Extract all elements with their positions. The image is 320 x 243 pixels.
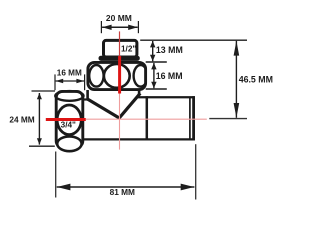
- dim 16MM left right arrowhead: [76, 79, 84, 83]
- svg-text:13 MM: 13 MM: [156, 45, 183, 55]
- nut top facet ellipse: [55, 91, 83, 101]
- dim 24MM bottom reference line: [29, 145, 55, 147]
- svg-text:20 MM: 20 MM: [106, 13, 132, 23]
- dim 16MM left left arrowhead: [56, 79, 64, 83]
- vertical centerline upper thin: [119, 31, 121, 57]
- dim 20MM right arrowhead: [128, 25, 138, 30]
- dim 20MM left arrowhead: [102, 25, 112, 30]
- hex bottom reference line: [146, 88, 167, 90]
- dim 16MM right line: [153, 63, 155, 88]
- dim 16MM right top arrowhead: [151, 63, 156, 70]
- dim 24MM bottom arrowhead: [37, 138, 42, 144]
- dim 81MM line: [57, 186, 195, 188]
- dim 46.5MM bottom arrowhead: [234, 103, 240, 118]
- hex left facet ellipse: [89, 65, 103, 87]
- dim 81MM right extension line: [195, 144, 197, 199]
- body right chamfer diagonal: [119, 93, 141, 118]
- body right wall: [138, 90, 141, 95]
- svg-text:16 MM: 16 MM: [57, 69, 82, 78]
- dim 81MM right arrowhead: [181, 184, 195, 191]
- dim 13MM line: [152, 41, 154, 61]
- dim 13MM bottom arrowhead: [150, 55, 155, 62]
- pipe/body divider: [146, 96, 149, 140]
- dim 46.5MM line: [235, 41, 237, 118]
- body left top short edge: [83, 98, 89, 100]
- hex center facet ellipse: [104, 64, 130, 88]
- vertical centerline lower pink: [119, 94, 121, 150]
- dim 20MM line: [102, 26, 138, 28]
- cap outline: [104, 40, 137, 57]
- hex top reference line: [146, 61, 167, 63]
- dim 16MM left left tick: [54, 74, 56, 90]
- dim 81MM left arrowhead: [57, 184, 71, 191]
- hex outline: [88, 62, 146, 89]
- valve body bottom edge: [83, 138, 195, 140]
- svg-text:16 MM: 16 MM: [156, 71, 183, 81]
- nut bottom facet ellipse: [57, 136, 81, 151]
- svg-text:1/2": 1/2": [121, 44, 136, 53]
- top reference line: [140, 39, 247, 41]
- dim 81MM left extension line: [55, 152, 57, 198]
- horizontal centerline thick: [46, 118, 86, 121]
- dim 16MM right bottom arrowhead: [151, 82, 156, 89]
- svg-text:24 MM: 24 MM: [9, 115, 34, 125]
- svg-text:81 MM: 81 MM: [110, 187, 135, 197]
- dim 46.5MM bottom reference line: [209, 118, 247, 120]
- svg-text:46.5 MM: 46.5 MM: [239, 75, 273, 85]
- dim 13MM top arrowhead: [150, 41, 155, 48]
- dim 24MM top reference line: [32, 90, 56, 92]
- pipe end inner line: [189, 97, 191, 139]
- dim 46.5MM top arrowhead: [234, 41, 240, 56]
- vertical centerline thick: [118, 56, 121, 94]
- pipe top edge: [137, 96, 195, 98]
- hex right facet ellipse: [134, 65, 148, 87]
- body left wall: [86, 90, 89, 100]
- dim 24MM top arrowhead: [37, 93, 42, 99]
- nut middle facet ellipse: [57, 105, 81, 135]
- pipe end outer face: [192, 96, 195, 140]
- cap flange: [99, 56, 140, 61]
- horizontal centerline pink: [86, 118, 207, 120]
- dim 24MM line: [38, 93, 40, 145]
- dim 16MM left line: [56, 80, 84, 82]
- dim 20MM right tick: [137, 21, 139, 33]
- dim 20MM left tick: [100, 21, 102, 33]
- dim 16MM left right tick: [84, 74, 86, 90]
- svg-text:3/4": 3/4": [61, 121, 76, 130]
- nut 3/4 outline: [56, 91, 83, 147]
- body left chamfer diagonal: [87, 99, 120, 119]
